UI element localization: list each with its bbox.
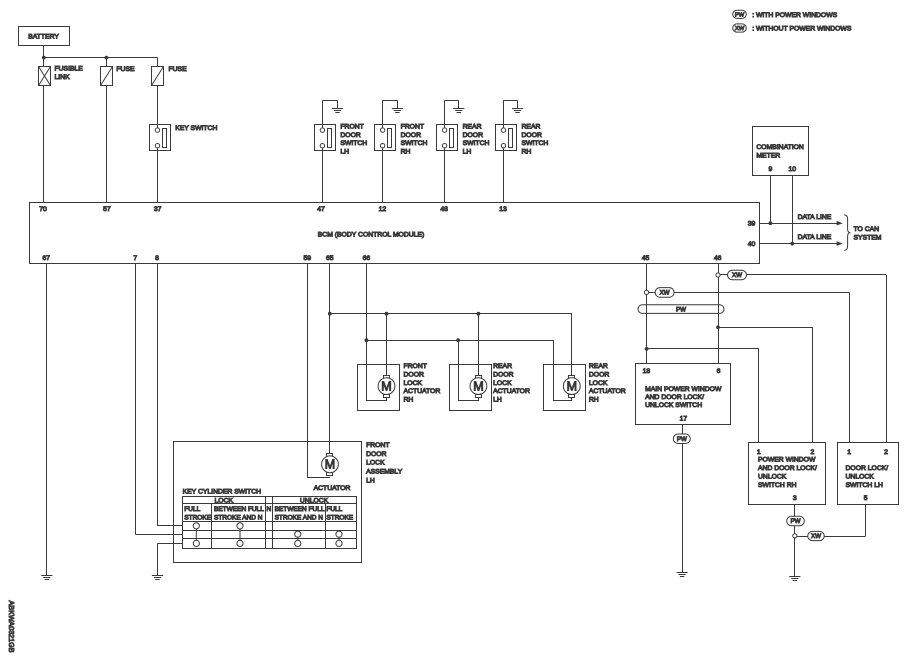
svg-text:AND DOOR LOCK/: AND DOOR LOCK/	[758, 465, 817, 472]
front door switch RH	[375, 125, 396, 151]
svg-text:ACTUATOR: ACTUATOR	[589, 388, 626, 395]
wire RH switch pin 3 to ground	[794, 505, 796, 577]
svg-text:FRONT: FRONT	[340, 124, 363, 131]
junction wire 45 branch	[645, 347, 649, 351]
svg-text:N: N	[266, 506, 271, 513]
table line below LOCK/UNLOCK header	[182, 503, 356, 505]
rear door switch RH	[496, 125, 517, 151]
svg-text:65: 65	[326, 255, 334, 262]
svg-text:SWITCH: SWITCH	[522, 140, 549, 147]
svg-text:DATA LINE: DATA LINE	[798, 234, 832, 241]
rear door lock actuator RH box	[544, 365, 586, 411]
junction pin 9 / data line	[769, 221, 773, 225]
connector XW (pin 46 branch)	[728, 270, 747, 280]
svg-text:REAR: REAR	[522, 124, 541, 131]
key switch	[150, 125, 171, 151]
svg-text:66: 66	[363, 255, 371, 262]
wire to power window switch RH pin 2	[718, 327, 812, 329]
svg-text:FRONT: FRONT	[404, 363, 427, 370]
svg-text:UNLOCK SWITCH: UNLOCK SWITCH	[645, 402, 702, 409]
svg-text:XW: XW	[660, 290, 670, 297]
svg-text:BETWEEN FULL: BETWEEN FULL	[275, 506, 325, 513]
svg-text:KEY SWITCH: KEY SWITCH	[175, 125, 217, 132]
svg-text:FULL: FULL	[184, 506, 200, 513]
svg-text:FUSE: FUSE	[169, 66, 188, 73]
wire key cylinder row 3 to ground	[158, 543, 183, 545]
svg-text:LOCK: LOCK	[366, 460, 385, 467]
ground G1 (pin 67)	[41, 576, 52, 580]
svg-text:M: M	[473, 379, 483, 393]
ground front door switch LH	[332, 109, 343, 113]
svg-text:FUSE: FUSE	[116, 66, 135, 73]
front door lock actuator RH box	[358, 365, 400, 411]
wire fuse 2 to key switch	[157, 86, 159, 128]
svg-text:ACTUATOR: ACTUATOR	[493, 388, 530, 395]
wire XW branch to door lock/unlock switch LH pin 1	[674, 292, 849, 294]
svg-text:ACTUATOR: ACTUATOR	[404, 388, 441, 395]
svg-text:COMBINATION: COMBINATION	[756, 144, 804, 151]
junction	[385, 312, 389, 316]
wire XW branch to door lock switch LH pin 5	[824, 536, 866, 538]
wire data line 39	[760, 223, 837, 225]
door lock/unlock switch LH box	[838, 443, 899, 505]
svg-text:FULL: FULL	[326, 506, 342, 513]
table line row separator 2	[182, 538, 356, 540]
power window and door lock/unlock switch RH box	[749, 443, 826, 505]
svg-text:FUSIBLE: FUSIBLE	[55, 65, 84, 72]
table column line 1	[211, 504, 213, 549]
svg-text:LH: LH	[366, 477, 375, 484]
wire rear door switch LH to BCM	[444, 148, 446, 202]
svg-text:SWITCH RH: SWITCH RH	[758, 482, 797, 489]
svg-text:ACTUATOR: ACTUATOR	[314, 485, 351, 492]
svg-text:5: 5	[864, 495, 868, 502]
wire XW branch to door lock/unlock switch LH pin 2	[746, 274, 886, 276]
wire rear door switch LH to ground	[444, 100, 446, 128]
fuse F2	[152, 67, 164, 86]
motor actuator (front door lock assembly LH)	[322, 454, 339, 476]
svg-text:ABKWA0321GB: ABKWA0321GB	[7, 601, 16, 653]
svg-text:59: 59	[304, 255, 312, 262]
front door switch LH	[315, 125, 336, 151]
key cylinder switch contacts	[195, 526, 197, 544]
svg-text:RH: RH	[589, 396, 599, 403]
svg-text:METER: METER	[756, 153, 780, 160]
svg-text:17: 17	[680, 416, 688, 423]
rear door lock actuator LH box	[450, 365, 492, 411]
ground G4 (RH switch)	[789, 577, 800, 581]
svg-text:7: 7	[133, 255, 137, 262]
legend PW connector symbol	[733, 10, 747, 18]
junction pin 65 / lock bus	[328, 312, 332, 316]
motor rear door lock actuator RH	[563, 376, 580, 398]
wire rear door switch RH to BCM	[503, 148, 505, 202]
wire unlock bus into rear actuator LH	[458, 340, 460, 401]
svg-text:13: 13	[499, 206, 507, 213]
svg-text:SWITCH: SWITCH	[463, 140, 490, 147]
svg-text:48: 48	[440, 206, 448, 213]
svg-text:18: 18	[643, 368, 651, 375]
motor front door lock actuator RH	[378, 376, 395, 398]
svg-text:47: 47	[317, 206, 325, 213]
svg-text:DOOR: DOOR	[493, 372, 513, 379]
svg-text:37: 37	[154, 206, 162, 213]
svg-text:9: 9	[769, 166, 773, 173]
svg-text:PW: PW	[676, 306, 686, 313]
wire key switch to BCM pin 37	[157, 148, 159, 202]
svg-text:SWITCH LH: SWITCH LH	[846, 482, 883, 489]
svg-text:RH: RH	[401, 148, 411, 155]
svg-text:LH: LH	[493, 396, 502, 403]
brace to CAN system	[844, 215, 850, 250]
svg-text:SWITCH: SWITCH	[340, 140, 367, 147]
svg-text:AND DOOR LOCK/: AND DOOR LOCK/	[645, 394, 704, 401]
main power window and door lock/unlock switch box	[636, 364, 731, 425]
wire battery down	[43, 46, 45, 58]
wire front door switch LH to BCM	[322, 148, 324, 202]
svg-text:PW: PW	[677, 436, 687, 443]
svg-text:DOOR: DOOR	[522, 132, 542, 139]
legend XW connector symbol	[733, 24, 747, 32]
svg-text:LINK: LINK	[55, 74, 71, 81]
svg-text:LOCK: LOCK	[404, 380, 423, 387]
wire meter pin 9 to data line	[770, 176, 772, 224]
svg-text:M: M	[381, 379, 391, 393]
front door lock assembly LH box	[174, 442, 362, 563]
wire unlock bus into rear actuator RH	[553, 340, 555, 401]
svg-text:10: 10	[789, 166, 797, 173]
svg-text:DOOR: DOOR	[463, 132, 483, 139]
connector PW (RH pin 3)	[787, 516, 805, 526]
wire front door switch RH to ground	[382, 100, 384, 128]
svg-text:DOOR: DOOR	[366, 451, 386, 458]
svg-text:6: 6	[717, 368, 721, 375]
svg-text:BETWEEN FULL: BETWEEN FULL	[214, 506, 264, 513]
wire BCM pin 59 down into assembly	[307, 263, 309, 478]
connector XW (door lock LH)	[808, 531, 825, 540]
wire to rear actuator RH motor bottom	[554, 400, 572, 402]
svg-text:57: 57	[103, 206, 111, 213]
wire rear door switch RH to ground	[503, 100, 505, 128]
svg-text:8: 8	[155, 255, 159, 262]
wire lock bus to front actuator RH motor	[386, 314, 388, 375]
ground G3 (main switch)	[677, 573, 688, 577]
svg-text:BATTERY: BATTERY	[28, 34, 59, 41]
wire to front actuator RH motor bottom	[366, 400, 386, 402]
wire fusible link to BCM pin 70	[43, 86, 45, 203]
svg-text:FRONT: FRONT	[401, 124, 424, 131]
wire pin 59 to actuator motor bottom	[307, 477, 330, 479]
wire meter pin 10 to data line	[792, 176, 794, 244]
wire pin 45 to XW connector	[649, 292, 656, 294]
svg-text:LOCK: LOCK	[493, 380, 512, 387]
wire pin 7 to key cylinder switch row 2	[135, 534, 182, 536]
connector XW (pin 45 branch)	[655, 288, 674, 298]
rear door switch LH	[437, 125, 458, 151]
svg-text:12: 12	[379, 206, 387, 213]
svg-text:UNLOCK: UNLOCK	[846, 473, 875, 480]
wire lock bus	[330, 313, 572, 315]
svg-text:45: 45	[642, 255, 650, 262]
svg-text:SYSTEM: SYSTEM	[854, 235, 882, 242]
fusible link	[39, 67, 51, 86]
svg-text:UNLOCK: UNLOCK	[758, 474, 787, 481]
junction	[477, 312, 481, 316]
svg-text:M: M	[325, 458, 335, 472]
svg-text:SWITCH: SWITCH	[401, 140, 428, 147]
table N column line right	[272, 496, 274, 548]
wire data line 40	[760, 243, 837, 245]
wire lock bus to rear actuator LH motor	[478, 314, 480, 375]
svg-text:BCM (BODY CONTROL MODULE): BCM (BODY CONTROL MODULE)	[318, 231, 425, 238]
svg-text:2: 2	[884, 449, 888, 456]
wire lock bus to rear actuator RH motor	[571, 314, 573, 375]
svg-text:DOOR: DOOR	[340, 132, 360, 139]
ground G2 (key cylinder switch)	[152, 576, 163, 580]
arrow data line 39	[837, 221, 843, 226]
junction pin 66 / unlock bus	[365, 338, 369, 342]
wire BCM pin 7 down	[135, 263, 137, 534]
svg-text:2: 2	[811, 449, 815, 456]
ground rear door switch LH	[453, 109, 464, 113]
wire unlock bus	[366, 340, 553, 342]
junction fuse 1	[105, 56, 109, 60]
svg-text:46: 46	[714, 255, 722, 262]
svg-text:STROKE: STROKE	[326, 514, 353, 521]
combination meter box	[753, 127, 809, 176]
motor rear door lock actuator LH	[470, 376, 487, 398]
arrow data line 40	[837, 241, 843, 246]
battery box	[19, 27, 70, 46]
svg-text:FRONT: FRONT	[366, 442, 389, 449]
wire BCM pin 46 to main switch pin 6	[718, 263, 720, 363]
junction battery/fusible link	[42, 56, 46, 60]
junction wire 46 branch	[716, 325, 720, 329]
svg-text:39: 39	[748, 221, 756, 228]
svg-text:KEY CYLINDER SWITCH: KEY CYLINDER SWITCH	[183, 488, 262, 495]
wire to fusible link	[43, 58, 45, 67]
junction	[456, 338, 460, 342]
svg-text:STROKE AND N: STROKE AND N	[214, 514, 263, 521]
wire BCM pin 8 down	[157, 263, 159, 526]
table line row separator 1	[182, 530, 356, 532]
wire to power window switch RH pin 1	[647, 348, 759, 350]
svg-text:LH: LH	[340, 148, 349, 155]
wire main switch pin 17 to ground	[682, 425, 684, 573]
svg-text:PW: PW	[735, 13, 745, 19]
svg-text:XW: XW	[732, 272, 742, 279]
wire to fuse 1	[106, 58, 108, 67]
svg-text:RH: RH	[522, 148, 532, 155]
table column line 2	[325, 504, 327, 549]
svg-text:XW: XW	[811, 533, 821, 540]
wire front door switch LH to ground	[322, 100, 324, 128]
svg-text:40: 40	[748, 241, 756, 248]
svg-text:: WITH POWER WINDOWS: : WITH POWER WINDOWS	[752, 12, 837, 19]
svg-text:PW: PW	[791, 518, 801, 525]
svg-text:REAR: REAR	[493, 363, 512, 370]
svg-text:LOCK: LOCK	[589, 380, 608, 387]
svg-text:DOOR LOCK/: DOOR LOCK/	[846, 465, 889, 472]
option connector circle on wire 45	[645, 290, 649, 294]
svg-text:ASSEMBLY: ASSEMBLY	[366, 469, 403, 476]
svg-text:DOOR: DOOR	[589, 372, 609, 379]
wire BCM pin 67 to ground	[46, 263, 48, 575]
fuse F1	[101, 67, 113, 86]
ground front door switch RH	[392, 109, 403, 113]
wire pin 8 to key cylinder switch row 1	[158, 525, 183, 527]
wire BCM pin 45 to main switch pin 18	[646, 263, 648, 363]
svg-text:67: 67	[42, 255, 50, 262]
wire to XW connector (RH pin 3 branch)	[797, 536, 808, 538]
svg-text:REAR: REAR	[589, 363, 608, 370]
svg-text:UNLOCK: UNLOCK	[300, 498, 329, 505]
table N column line left	[265, 496, 267, 548]
connector PW (pin 17)	[673, 434, 690, 444]
svg-text:DOOR: DOOR	[404, 372, 424, 379]
svg-text:: WITHOUT POWER WINDOWS: : WITHOUT POWER WINDOWS	[752, 26, 852, 33]
wire to rear actuator LH motor bottom	[458, 400, 478, 402]
junction pin 10 / data line	[790, 242, 794, 246]
svg-text:DATA LINE: DATA LINE	[798, 214, 832, 221]
svg-text:M: M	[567, 379, 577, 393]
connector PW harness (wires 45/46)	[638, 305, 724, 314]
wire BCM pin 65 to actuator motor top	[329, 263, 331, 453]
svg-text:TO CAN: TO CAN	[854, 226, 880, 233]
svg-text:LOCK: LOCK	[215, 498, 234, 505]
table line below column labels	[182, 521, 356, 523]
wire front door switch RH to BCM	[382, 148, 384, 202]
svg-text:1: 1	[847, 449, 851, 456]
option connector circle on wire 46	[716, 273, 720, 277]
svg-text:1: 1	[757, 449, 761, 456]
wire to fuse 2	[157, 58, 159, 67]
svg-text:STROKE: STROKE	[184, 514, 211, 521]
svg-text:3: 3	[793, 495, 797, 502]
svg-text:70: 70	[39, 206, 47, 213]
svg-text:POWER WINDOW: POWER WINDOW	[758, 457, 816, 464]
wire BCM pin 66 down	[366, 263, 368, 401]
BCM (body control module) box	[30, 203, 760, 264]
option connector circle (RH pin 3)	[793, 534, 797, 538]
svg-text:MAIN POWER WINDOW: MAIN POWER WINDOW	[645, 386, 722, 393]
svg-text:XW: XW	[735, 26, 745, 32]
wire pin 46 to XW connector	[720, 274, 727, 276]
svg-text:LH: LH	[463, 148, 472, 155]
svg-text:REAR: REAR	[463, 124, 482, 131]
key cylinder switch table frame	[183, 497, 357, 549]
wire fuse 1 to BCM pin 57	[106, 86, 108, 203]
ground rear door switch RH	[512, 109, 523, 113]
svg-text:DOOR: DOOR	[401, 132, 421, 139]
svg-text:STROKE AND N: STROKE AND N	[275, 514, 324, 521]
svg-text:RH: RH	[404, 396, 414, 403]
wire top bus	[44, 57, 158, 59]
